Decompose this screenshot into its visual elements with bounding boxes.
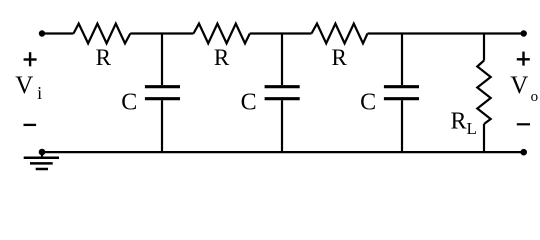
label - (output polarity) [517, 123, 530, 125]
label + (input polarity) [24, 52, 37, 66]
capacitor C1 [145, 34, 180, 153]
svg-text:RL: RL [451, 109, 477, 139]
wire: R2 to node 2 and resistor R3 [250, 32, 312, 34]
wire: R1 to node 1 and resistor R2 [130, 32, 193, 34]
svg-text:Vo: Vo [510, 72, 538, 105]
resistor RL (load) [477, 34, 490, 153]
svg-text:C: C [121, 89, 137, 115]
capacitor C3 [384, 34, 419, 153]
svg-text:C: C [360, 89, 376, 115]
label + (output polarity) [517, 52, 530, 66]
node dot: input - / ground node [39, 149, 46, 156]
wire: R3 to node 3, RL junction and output + node [368, 32, 525, 34]
node dot: output - terminal [520, 149, 527, 156]
resistor R2 [194, 24, 250, 44]
svg-text:R: R [214, 45, 230, 70]
resistor R1 [74, 24, 131, 44]
svg-text:R: R [96, 45, 112, 70]
wire: bottom return rail [42, 151, 524, 153]
ground [24, 152, 59, 169]
capacitor C2 [265, 34, 300, 153]
svg-text:C: C [241, 89, 257, 115]
resistor R3 [312, 24, 368, 44]
svg-text:Vi: Vi [15, 72, 42, 103]
label - (input polarity) [24, 124, 37, 126]
wire: input + to resistor R1 [42, 32, 74, 34]
node dot: output + terminal [521, 30, 527, 36]
node dot: input + terminal [39, 30, 45, 36]
svg-text:R: R [332, 45, 348, 70]
